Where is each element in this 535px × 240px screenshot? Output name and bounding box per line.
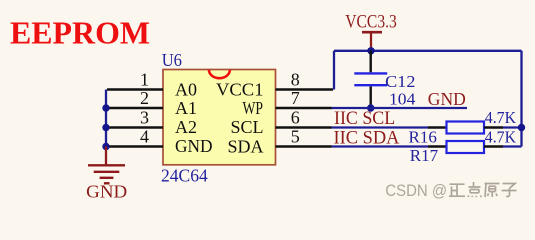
watermark glyph yuan <box>485 184 500 198</box>
resistor R17 body <box>447 141 485 153</box>
svg-text:SCL: SCL <box>230 117 263 137</box>
pin 3 lead <box>107 126 163 128</box>
IC U6 body <box>163 70 276 165</box>
svg-text:C12: C12 <box>385 72 415 91</box>
wire SCL <box>332 126 429 128</box>
wire VCC horizontal <box>334 50 522 52</box>
svg-text:1: 1 <box>140 70 149 90</box>
wire pin8 riser <box>333 51 335 90</box>
watermark glyph dian <box>468 182 481 197</box>
svg-text:IIC SDA: IIC SDA <box>334 127 400 148</box>
resistor R16 body <box>447 122 485 134</box>
svg-text:4.7K: 4.7K <box>485 128 517 147</box>
svg-text:5: 5 <box>291 127 300 147</box>
pin 7 lead <box>276 107 332 109</box>
svg-text:4.7K: 4.7K <box>485 108 517 127</box>
junction pin2 <box>102 104 109 111</box>
junction cap bottom <box>367 104 374 111</box>
junction VCC node <box>367 47 374 54</box>
pin 1 lead <box>107 88 163 90</box>
power stem <box>370 32 372 51</box>
svg-text:GND: GND <box>428 89 466 109</box>
junction R16 rail <box>518 124 525 131</box>
svg-text:A0: A0 <box>175 80 197 100</box>
svg-text:CSDN @: CSDN @ <box>385 181 447 200</box>
svg-text:24C64: 24C64 <box>161 165 208 185</box>
power bar <box>362 31 382 34</box>
svg-text:IIC SCL: IIC SCL <box>334 108 395 129</box>
svg-text:7: 7 <box>291 88 300 108</box>
svg-text:GND: GND <box>175 136 213 156</box>
ground bar 3 <box>100 177 114 179</box>
ground bar 1 <box>88 164 125 166</box>
pin 5 lead <box>276 145 332 147</box>
capacitor C12 bottom lead <box>370 86 372 108</box>
svg-text:VCC3.3: VCC3.3 <box>345 13 397 33</box>
pin 8 lead <box>276 88 334 90</box>
resistor R17 right lead <box>484 145 503 147</box>
svg-text:A2: A2 <box>175 117 197 137</box>
svg-text:4: 4 <box>140 127 149 147</box>
svg-text:R16: R16 <box>409 127 437 146</box>
capacitor C12 top plate <box>354 72 387 74</box>
svg-text:WP: WP <box>243 98 264 118</box>
IC notch arc <box>209 70 230 78</box>
svg-text:A1: A1 <box>175 98 197 118</box>
pin 2 lead <box>107 107 163 109</box>
svg-text:SDA: SDA <box>227 137 263 157</box>
resistor R16 right lead <box>484 126 503 128</box>
wire right rail <box>520 51 522 147</box>
svg-text:8: 8 <box>291 70 300 90</box>
ground bar 4 <box>104 182 110 184</box>
pin 4 lead <box>107 145 163 147</box>
wire R17 to rail <box>503 145 522 147</box>
watermark glyph zi <box>502 184 517 197</box>
svg-text:R17: R17 <box>410 146 439 165</box>
resistor R16 left lead <box>428 126 447 128</box>
svg-text:GND: GND <box>86 182 127 202</box>
watermark glyph zheng <box>449 184 465 196</box>
wire SDA <box>332 145 429 147</box>
junction pin4 <box>102 143 109 150</box>
pin 6 lead <box>276 126 332 128</box>
svg-text:EEPROM: EEPROM <box>10 15 150 51</box>
ground bar 2 <box>94 171 120 173</box>
svg-text:104: 104 <box>389 89 416 108</box>
svg-text:U6: U6 <box>162 50 183 70</box>
svg-text:3: 3 <box>140 108 149 128</box>
capacitor C12 bottom plate <box>354 84 387 86</box>
svg-text:VCC1: VCC1 <box>216 80 264 100</box>
wire left bus <box>105 90 107 148</box>
ground stem <box>105 147 107 166</box>
resistor R17 left lead <box>428 145 447 147</box>
wire GND net <box>332 107 468 109</box>
capacitor C12 top lead <box>370 51 372 73</box>
wire R16 to rail <box>503 126 522 128</box>
svg-text:6: 6 <box>291 108 300 128</box>
junction pin3 <box>102 124 109 131</box>
svg-text:2: 2 <box>140 88 149 108</box>
